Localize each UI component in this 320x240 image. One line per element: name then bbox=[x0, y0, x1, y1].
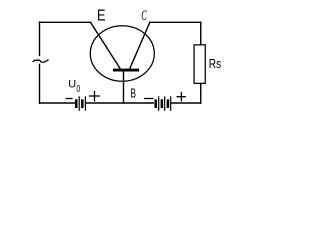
svg-text:0: 0 bbox=[76, 83, 80, 95]
svg-text:U: U bbox=[68, 79, 76, 91]
svg-text:C: C bbox=[141, 6, 147, 23]
svg-text:Rs: Rs bbox=[209, 57, 222, 71]
svg-text:B: B bbox=[130, 87, 136, 101]
svg-text:E: E bbox=[97, 7, 106, 25]
